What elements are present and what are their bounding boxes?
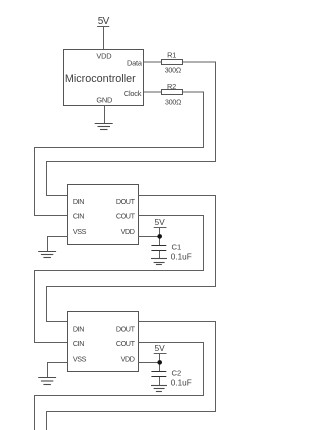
svg-text:DIN: DIN xyxy=(73,197,84,206)
svg-text:DOUT: DOUT xyxy=(116,197,136,206)
svg-text:Data: Data xyxy=(127,59,143,68)
svg-text:COUT: COUT xyxy=(116,339,136,348)
svg-text:0.1uF: 0.1uF xyxy=(171,379,192,388)
svg-text:300Ω: 300Ω xyxy=(165,99,181,106)
svg-text:5V: 5V xyxy=(98,16,110,27)
svg-text:DIN: DIN xyxy=(73,324,84,333)
svg-text:300Ω: 300Ω xyxy=(165,67,181,74)
svg-text:VDD: VDD xyxy=(121,354,135,363)
svg-text:VDD: VDD xyxy=(121,227,135,236)
svg-text:COUT: COUT xyxy=(116,212,136,221)
svg-text:CIN: CIN xyxy=(73,339,84,348)
svg-text:GND: GND xyxy=(96,96,112,105)
svg-text:Microcontroller: Microcontroller xyxy=(65,73,136,85)
svg-text:C1: C1 xyxy=(172,242,182,251)
svg-text:VSS: VSS xyxy=(73,354,87,363)
svg-text:DOUT: DOUT xyxy=(116,324,136,333)
svg-text:VSS: VSS xyxy=(73,227,87,236)
svg-text:VDD: VDD xyxy=(96,51,111,60)
svg-text:0.1uF: 0.1uF xyxy=(171,252,192,261)
svg-text:Clock: Clock xyxy=(124,89,142,98)
svg-text:R1: R1 xyxy=(167,51,176,60)
svg-text:CIN: CIN xyxy=(73,212,84,221)
svg-text:R2: R2 xyxy=(167,82,176,91)
svg-text:5V: 5V xyxy=(154,217,165,227)
svg-text:C2: C2 xyxy=(172,368,182,377)
svg-text:5V: 5V xyxy=(154,343,165,353)
